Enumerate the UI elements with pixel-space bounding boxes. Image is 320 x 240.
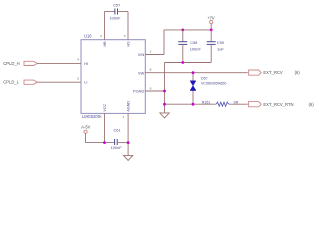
svg-text:LI: LI bbox=[84, 80, 87, 85]
pin 5 LI bbox=[77, 77, 87, 85]
wire A-5V to VCC pin 6 bbox=[86, 142, 115, 144]
junction D57 top bbox=[192, 71, 195, 74]
junction D57 bottom bbox=[192, 103, 195, 106]
svg-text:VIN: VIN bbox=[138, 52, 145, 57]
port EXT_RCV_RTN bbox=[249, 102, 315, 107]
wire RTN row bbox=[165, 103, 216, 105]
svg-text:D57: D57 bbox=[201, 76, 208, 80]
svg-text:5: 5 bbox=[77, 77, 79, 81]
pin 3 HS bbox=[124, 34, 131, 46]
pin 4 HI bbox=[77, 58, 88, 66]
pin 1 VIN bbox=[138, 50, 152, 58]
junction RTN row bbox=[163, 103, 166, 106]
svg-text:AGND: AGND bbox=[127, 101, 131, 112]
pin 2 HB bbox=[100, 34, 107, 46]
svg-text:CPLD_L: CPLD_L bbox=[3, 80, 19, 85]
wire SW pin 8 to EXT_RCV bbox=[145, 72, 247, 74]
junction PGND bbox=[163, 90, 166, 93]
port CPLD_L bbox=[3, 80, 37, 85]
svg-text:HI: HI bbox=[84, 61, 88, 66]
svg-text:0R: 0R bbox=[234, 100, 239, 104]
svg-text:3: 3 bbox=[124, 34, 126, 38]
svg-text:EXT_RCV_RTN: EXT_RCV_RTN bbox=[263, 102, 293, 107]
svg-text:C57: C57 bbox=[113, 2, 120, 7]
svg-text:8: 8 bbox=[150, 68, 152, 72]
pin 8 SW bbox=[138, 68, 152, 76]
svg-text:7: 7 bbox=[122, 115, 124, 119]
wire CPLD_H to pin 4 bbox=[37, 62, 81, 64]
svg-text:SW: SW bbox=[138, 70, 145, 75]
pin 7 AGND bbox=[122, 101, 130, 119]
capacitor C61 bbox=[111, 127, 129, 150]
junction +7V / C59 top bbox=[210, 29, 213, 32]
wire PGND pin 9 bbox=[145, 90, 164, 92]
svg-text:HS: HS bbox=[127, 41, 131, 47]
junction C58 bottom bbox=[181, 61, 184, 64]
svg-text:100nF: 100nF bbox=[110, 16, 122, 21]
svg-text:1uF: 1uF bbox=[217, 47, 224, 52]
port EXT_RCV bbox=[249, 70, 301, 75]
svg-text:1: 1 bbox=[150, 50, 152, 54]
junction C58 top bbox=[181, 29, 184, 32]
svg-text:CPLD_H: CPLD_H bbox=[3, 61, 20, 66]
power +7V bbox=[207, 15, 215, 30]
pin 9 PGND bbox=[133, 87, 152, 94]
wire VIN pin 1 to +7V bus bbox=[145, 30, 164, 55]
wire gnd bus under C58/C59 bbox=[165, 62, 212, 64]
svg-text:6: 6 bbox=[100, 115, 102, 119]
resistor R161 bbox=[202, 100, 239, 106]
svg-text:HB: HB bbox=[103, 41, 107, 47]
svg-text:100nF: 100nF bbox=[111, 145, 123, 150]
svg-text:(6): (6) bbox=[309, 102, 315, 107]
svg-text:VCC: VCC bbox=[103, 103, 107, 111]
ground (analog) bbox=[124, 155, 133, 160]
capacitor C59 bbox=[207, 30, 225, 63]
wire VCC pin 6 drop bbox=[104, 113, 106, 142]
capacitor C57 bbox=[105, 2, 129, 39]
junction VCC bbox=[103, 141, 106, 144]
svg-text:2: 2 bbox=[100, 34, 102, 38]
svg-text:LMG5200: LMG5200 bbox=[82, 114, 101, 119]
svg-text:VC060305A650: VC060305A650 bbox=[201, 82, 226, 86]
wire AGND pin 7 drop bbox=[127, 113, 129, 155]
svg-text:U16: U16 bbox=[84, 33, 92, 38]
wire gnd vertical drop bbox=[164, 63, 166, 113]
svg-text:C59: C59 bbox=[217, 40, 224, 45]
wire CPLD_L to pin 5 bbox=[37, 81, 81, 83]
svg-text:9: 9 bbox=[150, 87, 152, 91]
svg-text:EXT_RCV: EXT_RCV bbox=[263, 70, 283, 75]
svg-text:100nF: 100nF bbox=[190, 47, 202, 52]
diode D57 bbox=[190, 73, 226, 105]
svg-text:4: 4 bbox=[77, 58, 79, 62]
svg-text:C58: C58 bbox=[190, 40, 197, 45]
pin 6 VCC bbox=[100, 103, 107, 118]
svg-text:(6): (6) bbox=[295, 70, 301, 75]
IC U1 body (U16 LMG5200) bbox=[81, 40, 145, 114]
svg-text:+7V: +7V bbox=[207, 15, 215, 20]
svg-text:PGND: PGND bbox=[133, 89, 144, 94]
port CPLD_H bbox=[3, 61, 37, 66]
capacitor C58 bbox=[178, 30, 201, 63]
ground (power stage) bbox=[160, 113, 169, 118]
svg-text:R161: R161 bbox=[202, 101, 211, 105]
svg-text:A-5V: A-5V bbox=[81, 124, 90, 129]
svg-text:C61: C61 bbox=[114, 127, 121, 132]
junction AGND bbox=[127, 141, 130, 144]
wire +7V bus bbox=[164, 29, 211, 31]
power A-5V bbox=[81, 124, 90, 142]
